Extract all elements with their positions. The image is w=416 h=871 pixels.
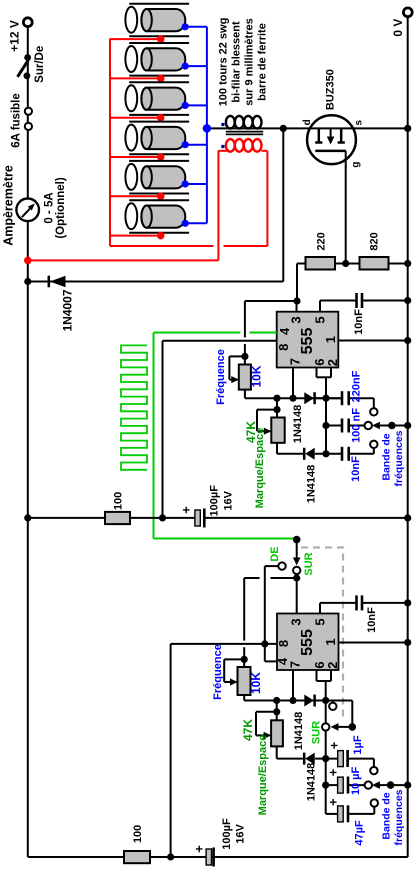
wire U1 pins 6+2 tie [316, 368, 318, 378]
wire red stub coil L5 [110, 195, 161, 197]
wire red bus riser to primary coil end [266, 151, 268, 246]
node blue terminal coil L5 [182, 180, 189, 187]
diode D3 1N4148 [303, 448, 306, 460]
wire supply filter U1 line [28, 517, 105, 519]
wire bottom supply branch V+ to 0V [28, 856, 408, 858]
wire flyback branch horizontal [28, 281, 283, 283]
node blue bus to drain line [203, 124, 211, 132]
node red terminal coil L6 [157, 232, 165, 240]
capacitor C10 100uF [206, 849, 211, 865]
svg-text:7: 7 [288, 661, 303, 668]
svg-text:5: 5 [313, 316, 328, 323]
node U2 supply DE junction [261, 640, 268, 647]
wire U1 pin5 stub [319, 301, 321, 312]
wire red bus bottom [110, 245, 214, 247]
wire red primary coil end stub [262, 150, 268, 152]
capacitor C2 220nF [341, 391, 344, 405]
wire blue stub coil L1 [185, 26, 207, 28]
node timing top U2 [322, 697, 329, 704]
contact band 2 U1 [365, 422, 372, 429]
wire green bottom [154, 538, 297, 540]
diode D2 1N4148 [293, 397, 342, 399]
wire 0V rail [407, 18, 409, 858]
node pot P3 wiper tie [241, 656, 248, 663]
node blue terminal coil L3 [182, 102, 189, 109]
node U1 pin3 [293, 297, 300, 304]
selector SW2 wiper U1 [380, 425, 392, 427]
svg-text:100: 100 [132, 825, 144, 843]
svg-text:555: 555 [299, 629, 316, 656]
resistor R1 220 [306, 257, 336, 270]
wire U2 pin5 stub [319, 603, 321, 614]
transformer T1 primary (red) [226, 139, 235, 152]
potentiometer P4 wiper [256, 734, 270, 736]
svg-text:BUZ350: BUZ350 [325, 69, 337, 110]
capacitor C1 10nF [355, 293, 358, 308]
wire gate lead [345, 151, 347, 264]
capacitor C7 10uF [326, 784, 338, 786]
wire blue bus [206, 27, 208, 224]
wire green reset U1 pin4 [154, 332, 241, 334]
svg-text:1N4148: 1N4148 [305, 465, 317, 504]
node U2 pin1 to rail [404, 639, 411, 646]
wire red bus vertical [109, 39, 111, 247]
node filter U1 on 0V rail [404, 514, 411, 521]
wire U2 pin4 hook [264, 644, 266, 662]
wire red feed from rail [28, 259, 219, 261]
node drain junction [280, 125, 287, 132]
svg-text:100 nF: 100 nF [350, 408, 362, 443]
wire red bus bottom crossover [224, 245, 268, 247]
svg-text:10nF: 10nF [366, 607, 378, 633]
wire U2 supply riser [170, 644, 172, 857]
wire timing node vertical [325, 398, 327, 454]
svg-text:8: 8 [276, 640, 291, 647]
wire red stub coil L6 [110, 235, 161, 237]
wire U1 supply riser [162, 341, 164, 518]
svg-text:fréquences: fréquences [393, 430, 405, 486]
resistor R3 100 [105, 512, 130, 524]
node pot P1 wiper tie [241, 353, 248, 360]
transformer T1 primary phase dot [221, 145, 224, 148]
node timing middle [322, 422, 329, 429]
node filter U1 junction [159, 514, 166, 521]
transformer T1 secondary phase dot [221, 123, 224, 126]
switch Sur/De blade [18, 60, 29, 77]
node red terminal coil L5 [157, 193, 165, 201]
coil L1 ferrite rod end [125, 7, 137, 33]
coil L6 winding wire upper [129, 199, 189, 201]
contact SUR SW1 [293, 567, 300, 574]
coil L3 winding wire lower [129, 114, 189, 116]
svg-text:1N4148: 1N4148 [292, 405, 304, 444]
svg-text:1µF: 1µF [352, 735, 364, 754]
node red feed junction on +12V rail [24, 257, 32, 265]
wire red stub coil L1 [110, 38, 161, 40]
capacitor C8 47uF [326, 813, 338, 815]
svg-text:16V: 16V [234, 824, 246, 844]
svg-text:3: 3 [289, 316, 304, 323]
capacitor C9 10nF [355, 595, 358, 610]
node filter U1 on +12V rail [24, 514, 31, 521]
node red terminal coil L4 [157, 153, 165, 161]
wire red feed to primary coil start [218, 150, 227, 152]
resistor R4 100 [124, 851, 150, 863]
node blue terminal coil L1 [182, 23, 189, 30]
svg-text:Sur/De: Sur/De [34, 46, 46, 83]
wire blue stub coil L2 [185, 65, 207, 67]
diode D4 1N4148 [293, 700, 326, 702]
wire pot P3 to pin7 line [243, 695, 245, 701]
node red terminal coil L2 [157, 75, 165, 83]
svg-text:10 µF: 10 µF [350, 767, 362, 796]
svg-text:1N4007: 1N4007 [61, 289, 75, 331]
svg-text:820: 820 [368, 232, 380, 250]
svg-text:+: + [191, 845, 206, 853]
wire D2 to timing node [315, 397, 342, 399]
wire U1 pin1 to 0V [338, 340, 407, 342]
svg-text:10nF: 10nF [350, 456, 362, 482]
coil L1 winding wire lower [129, 35, 189, 37]
node green to switch SW1 [293, 536, 301, 544]
wire blue stub coil L3 [185, 104, 207, 106]
svg-text:10K: 10K [250, 365, 264, 387]
svg-text:bi-filar blessent: bi-filar blessent [230, 21, 242, 103]
contact band 1 U1 [370, 408, 377, 415]
svg-text:barre de ferrite: barre de ferrite [256, 23, 268, 101]
coil L6 body [141, 206, 185, 228]
coil L5 ferrite rod end [125, 164, 137, 190]
svg-text:(Optionnel): (Optionnel) [55, 177, 67, 238]
svg-text:fréquences: fréquences [393, 789, 405, 845]
node red terminal coil L1 [157, 35, 165, 43]
node flyback branch on +12V rail [24, 278, 31, 285]
node SUR lower junction [293, 574, 300, 581]
svg-text:100 tours 22 swg: 100 tours 22 swg [217, 18, 229, 107]
wire D4 to timing node [315, 700, 326, 702]
svg-text:+12 V: +12 V [7, 20, 21, 52]
wire 220 to pin3 node [297, 263, 306, 265]
svg-text:DE: DE [269, 546, 281, 561]
wire U1 pin3 stub [296, 301, 298, 312]
wire DE to U2 supply [265, 565, 279, 567]
svg-text:4: 4 [277, 327, 292, 335]
svg-text:0 - 5A: 0 - 5A [43, 192, 55, 223]
svg-text:6A fusible: 6A fusible [10, 93, 22, 148]
transistor Q1 BUZ350 [307, 115, 356, 164]
node red terminal coil L3 [157, 114, 165, 122]
coil L2 winding wire lower [129, 75, 189, 77]
svg-text:7: 7 [288, 358, 303, 365]
coil L2 winding wire upper [129, 42, 189, 44]
wire flyback branch vertical [282, 128, 284, 281]
svg-text:SUR: SUR [310, 721, 322, 744]
node filter U2 junction [167, 853, 174, 860]
potentiometer P3 wiper [224, 681, 236, 683]
capacitor C3 100nF [341, 419, 344, 433]
wire blue stub coil L6 [185, 222, 207, 224]
wire blue stub coil L4 [185, 144, 207, 146]
svg-text:0 V: 0 V [391, 19, 405, 37]
fuse 6A [25, 108, 32, 115]
svg-text:1N4148: 1N4148 [305, 763, 317, 802]
svg-text:1: 1 [323, 638, 338, 645]
potentiometer P1 10K body [239, 365, 251, 390]
wire gate junction to 820 and rail [335, 263, 360, 265]
svg-text:10nF: 10nF [353, 309, 365, 335]
contact SUR SW1b [322, 723, 329, 730]
potentiometer P4 47K top [276, 701, 278, 721]
wire blue stub coil L5 [185, 183, 207, 185]
wire +12V rail [27, 28, 29, 857]
coil L3 ferrite rod end [125, 85, 137, 111]
node timing bottom [322, 450, 329, 457]
svg-text:Bande de: Bande de [381, 433, 393, 480]
coil L3 winding wire upper [129, 81, 189, 83]
svg-text:2: 2 [325, 359, 340, 366]
svg-text:Marque/Espace: Marque/Espace [257, 735, 269, 816]
potentiometer P1 wiper [229, 379, 237, 381]
svg-text:16V: 16V [222, 490, 234, 510]
svg-text:+: + [179, 506, 194, 514]
node gate divider junction [342, 260, 349, 267]
ammeter M1 [16, 199, 39, 222]
wire red stub coil L2 [110, 77, 161, 79]
selector SW3 wiper U2 [379, 784, 390, 786]
wire timing vertical lower U2 [325, 759, 327, 814]
svg-text:3: 3 [289, 618, 304, 625]
switch SW1 wiper arm [296, 540, 298, 558]
svg-text:Fréquence: Fréquence [212, 644, 224, 700]
svg-text:10K: 10K [249, 672, 263, 694]
coil L6 winding wire lower [129, 232, 189, 234]
wire green vertical [153, 333, 155, 539]
svg-text:+: + [326, 741, 341, 749]
coil L4 ferrite rod end [125, 125, 137, 151]
transformer T1 secondary (black) [226, 116, 235, 129]
terminal 0V [403, 8, 412, 17]
contact band 1 U2 [370, 767, 377, 774]
node 820 to rail [404, 260, 411, 267]
coil L2 ferrite rod end [125, 46, 137, 72]
svg-text:g: g [350, 162, 361, 168]
coil L5 winding wire lower [129, 193, 189, 195]
node C1 to rail [404, 297, 411, 304]
coil L4 body [141, 127, 185, 149]
wire red stub coil L4 [110, 156, 161, 158]
svg-text:100µF: 100µF [208, 485, 220, 517]
wire red stub coil L3 [110, 117, 161, 119]
capacitor C5 100uF [195, 510, 200, 526]
coil L1 winding wire upper [129, 3, 189, 5]
switch SW1b wiper [331, 723, 339, 731]
potentiometer P3 10K body [238, 667, 251, 695]
coil L4 winding wire lower [129, 153, 189, 155]
svg-text:Fréquence: Fréquence [215, 349, 227, 405]
wire pin3 U2 to 10K pot [271, 577, 297, 579]
terminal +12V [23, 18, 32, 27]
op-amp U2 555 body [277, 614, 339, 671]
svg-text:220nF: 220nF [350, 370, 362, 402]
op-amp U1 555 body [277, 312, 339, 368]
wire SUR node to U2 pin3 [296, 574, 298, 613]
node timing 10uF U2 [322, 782, 329, 789]
wire U1 supply line [163, 340, 277, 342]
wire U1 pin3 to 10K pot [245, 300, 297, 302]
wire pot P2 to D3 line [276, 443, 278, 454]
wire drain line [207, 127, 408, 129]
contact band 2 U2 [365, 781, 372, 788]
wire pot P1 to pin7 line [244, 390, 246, 399]
potentiometer P2 47K top [276, 398, 278, 417]
wire U2 pin7 stub [292, 670, 294, 701]
svg-text:d: d [302, 119, 313, 125]
potentiometer P2 47K body [271, 418, 284, 443]
node C9 to rail [404, 599, 411, 606]
resistor R2 820 [360, 257, 389, 270]
wire timing top to SW1b [326, 700, 353, 702]
coil L2 body [141, 48, 185, 70]
svg-text:1N4148: 1N4148 [293, 712, 305, 751]
svg-text:+: + [325, 768, 340, 776]
node blue terminal coil L2 [182, 63, 189, 70]
svg-text:100µF: 100µF [221, 818, 233, 850]
wire U2 pins 6+2 tie [316, 670, 318, 681]
svg-text:Ampèremètre: Ampèremètre [1, 165, 15, 246]
diode D1 1N4007 [48, 276, 51, 288]
coil L3 body [141, 88, 185, 110]
coil L5 winding wire upper [129, 160, 189, 162]
wire D5 to timing node [315, 758, 338, 760]
mech link dashed [301, 548, 343, 721]
coil L1 body [141, 9, 185, 31]
potentiometer P4 47K body [271, 720, 283, 746]
transformer T1 core bars [226, 131, 263, 133]
wire pot P4 to D5 line [276, 746, 278, 758]
svg-text:Bande de: Bande de [380, 792, 392, 839]
capacitor C6 1uF [338, 751, 344, 767]
node U1 pin1 to rail [404, 337, 411, 344]
svg-text:47µF: 47µF [353, 820, 365, 846]
node source to 0V rail [404, 125, 411, 132]
wire timing middle to C3 [326, 425, 342, 427]
svg-text:100: 100 [112, 492, 124, 510]
node timing top [322, 395, 329, 402]
coil L6 ferrite rod end [125, 203, 137, 229]
wire timing vertical upper U2 [325, 731, 327, 759]
contact DE SW1 [278, 562, 285, 569]
wire U2 pin1 to 0V [339, 642, 408, 644]
svg-text:sur 9 millimètres: sur 9 millimètres [243, 18, 255, 105]
node blue terminal coil L4 [182, 141, 189, 148]
coil L5 body [141, 166, 185, 188]
node U1 pin7 [289, 395, 296, 402]
wire U2 supply line [171, 643, 277, 645]
svg-text:Marque/Espace: Marque/Espace [254, 428, 266, 509]
contact A SW1b [332, 701, 334, 704]
svg-text:SUR: SUR [303, 552, 315, 575]
svg-text:8: 8 [276, 344, 291, 351]
contact band 3 U2 [371, 799, 378, 806]
wire red feed vertical [217, 151, 219, 261]
svg-text:220: 220 [315, 232, 327, 250]
potentiometer P2 wiper [257, 430, 270, 432]
svg-text:47K: 47K [241, 719, 255, 741]
capacitor C4 10nF [341, 447, 344, 461]
waveform sweep symbol [121, 345, 147, 469]
node timing 1uF U2 [322, 755, 329, 762]
node blue terminal coil L6 [182, 220, 189, 227]
svg-text:+: + [325, 798, 340, 806]
diode D5 1N4148 [303, 753, 306, 765]
svg-text:5: 5 [313, 618, 328, 625]
wire D3 to timing node [315, 453, 342, 455]
node U2 pin7 [289, 697, 296, 704]
switch Sur/De contact dots [24, 54, 31, 61]
contact band 3 U1 [370, 441, 377, 448]
svg-text:2: 2 [325, 662, 340, 669]
wire U1 pin7 stub [292, 368, 294, 399]
svg-text:555: 555 [299, 328, 316, 355]
coil L4 winding wire upper [129, 121, 189, 123]
svg-text:1: 1 [323, 336, 338, 343]
svg-text:s: s [353, 119, 364, 125]
